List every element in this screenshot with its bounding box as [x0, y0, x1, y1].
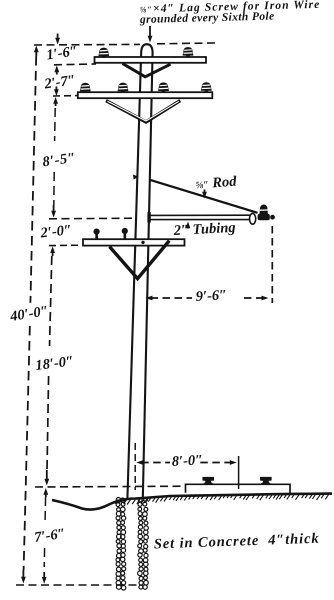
concrete texture left column	[116, 498, 126, 591]
dim 2'-0"	[39, 222, 73, 256]
svg-text:9′-6″: 9′-6″	[195, 287, 227, 305]
insulator on crossarm1 left	[98, 48, 109, 58]
dim 8'-5"	[41, 108, 77, 218]
bottom (pole butt) extension line	[16, 584, 137, 586]
dim 40'-0" line	[7, 46, 52, 584]
ground line	[52, 494, 332, 510]
insulator on crossarm1 right	[183, 47, 194, 57]
V brace crossarm1	[123, 64, 171, 77]
svg-text:2′-0″: 2′-0″	[39, 222, 73, 241]
ground hatching	[115, 494, 329, 504]
crossarm 3	[83, 239, 185, 245]
extension line tubing level	[49, 217, 137, 220]
extension line pole-top level	[34, 43, 140, 46]
bolt for rod on pole	[133, 175, 139, 180]
pins on crossarm3	[94, 229, 100, 240]
dim 8'-0"	[135, 443, 238, 490]
dim 7'-6"	[33, 488, 66, 584]
insulator at tubing end	[258, 205, 275, 221]
rod label	[195, 174, 238, 199]
extension line crossarm1 level	[54, 63, 96, 66]
V brace crossarm2 (double line)	[106, 101, 180, 122]
leader arrow to pole top	[148, 26, 153, 43]
rod 5/8 diagonal	[150, 180, 258, 213]
tubing bracket	[147, 212, 255, 224]
extension line crossarm2 level	[53, 95, 77, 97]
crossarm 2	[78, 92, 213, 98]
dim 18'-0"	[32, 256, 75, 486]
concrete texture right column	[138, 498, 149, 590]
track: tie and rails	[186, 478, 291, 493]
svg-text:8′-0″: 8′-0″	[171, 452, 203, 470]
dim column: 1'-6"	[45, 34, 78, 75]
crossarm 1	[95, 57, 207, 63]
ground level extension line	[35, 485, 186, 488]
insulators on crossarm2	[80, 83, 91, 93]
dim 2'-7"	[42, 72, 76, 106]
tubing label	[172, 220, 236, 239]
dim 9'-6"	[146, 287, 269, 305]
V brace crossarm3	[110, 241, 170, 279]
extension line crossarm3 level	[49, 244, 82, 246]
right extension (dash) below insulator	[271, 226, 273, 303]
svg-text:2″ Tubing: 2″ Tubing	[172, 220, 236, 239]
pole	[127, 44, 152, 499]
note: lag screw annotation	[139, 0, 321, 26]
